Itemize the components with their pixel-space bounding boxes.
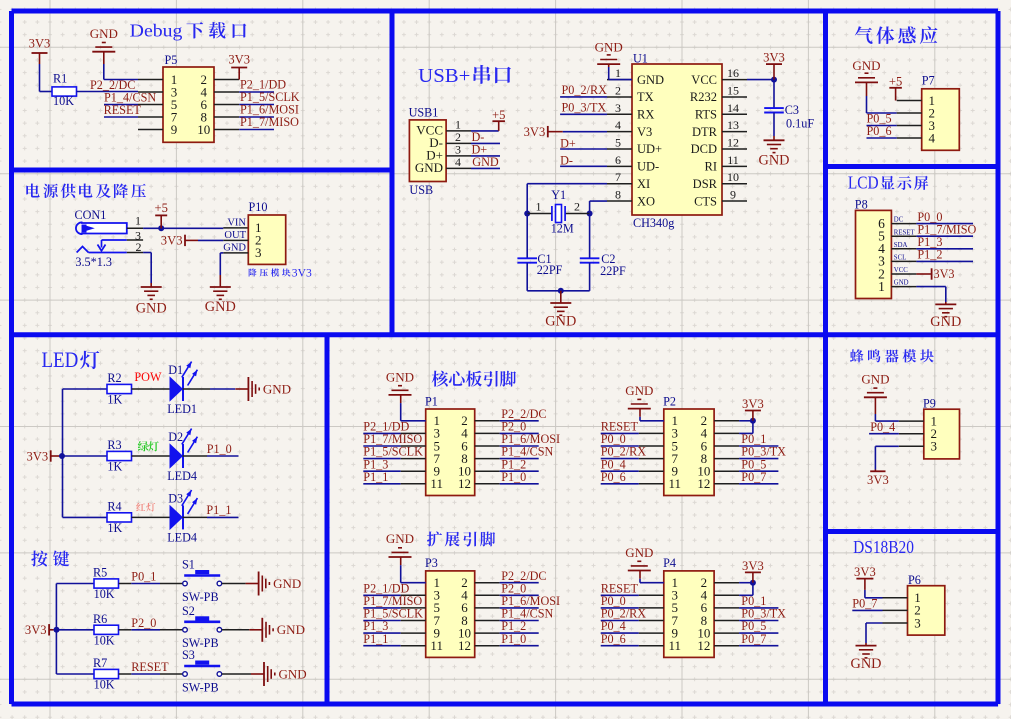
svg-text:R4: R4 [107, 500, 121, 514]
svg-text:RESET: RESET [131, 660, 169, 674]
svg-text:5: 5 [615, 136, 621, 150]
svg-text:2: 2 [574, 200, 580, 214]
svg-text:3V3: 3V3 [854, 565, 876, 579]
svg-text:+5: +5 [492, 108, 505, 122]
svg-text:P0_3/TX: P0_3/TX [562, 101, 607, 115]
svg-text:22PF: 22PF [537, 263, 563, 277]
svg-text:USB: USB [409, 183, 433, 197]
svg-text:XO: XO [637, 194, 655, 208]
svg-text:R5: R5 [93, 566, 107, 580]
svg-text:D-: D- [560, 154, 573, 168]
svg-text:7: 7 [615, 170, 621, 184]
svg-text:2: 2 [615, 83, 621, 97]
svg-text:P1_2: P1_2 [917, 248, 942, 262]
svg-text:P0_7: P0_7 [741, 470, 766, 484]
svg-text:RX: RX [637, 108, 654, 122]
svg-text:USB1: USB1 [409, 106, 439, 120]
svg-text:R1: R1 [53, 72, 67, 86]
svg-text:GND: GND [415, 160, 443, 175]
svg-text:P7: P7 [922, 74, 935, 88]
svg-text:+5: +5 [154, 201, 167, 215]
svg-text:GND: GND [136, 301, 167, 317]
svg-text:3V3: 3V3 [292, 266, 312, 279]
svg-text:GND: GND [759, 153, 790, 169]
svg-text:GND: GND [625, 545, 653, 560]
svg-text:R6: R6 [93, 612, 107, 626]
svg-text:16: 16 [727, 66, 739, 80]
svg-text:GND: GND [545, 313, 576, 329]
svg-text:S1: S1 [182, 558, 195, 572]
svg-text:12: 12 [458, 638, 471, 653]
svg-text:P9: P9 [923, 396, 936, 410]
svg-text:P1_0: P1_0 [207, 442, 232, 456]
svg-text:TX: TX [637, 90, 654, 104]
svg-text:UD+: UD+ [637, 142, 662, 156]
svg-text:3V3: 3V3 [763, 51, 785, 65]
svg-text:D1: D1 [168, 363, 183, 377]
svg-text:GND: GND [930, 314, 961, 330]
svg-text:DCD: DCD [691, 142, 717, 156]
svg-text:UD-: UD- [637, 160, 659, 174]
svg-text:P1: P1 [425, 394, 438, 408]
svg-text:P5: P5 [165, 53, 178, 67]
svg-text:RTS: RTS [695, 108, 717, 122]
svg-text:3V3: 3V3 [29, 37, 51, 51]
svg-text:10K: 10K [94, 587, 115, 601]
svg-text:SW-PB: SW-PB [182, 680, 219, 694]
svg-text:9: 9 [171, 122, 178, 137]
svg-text:R3: R3 [107, 438, 121, 452]
svg-text:10K: 10K [94, 633, 115, 647]
svg-text:GND: GND [861, 372, 889, 387]
svg-text:GND: GND [386, 531, 414, 546]
svg-text:GND: GND [205, 299, 236, 315]
svg-text:P1_1: P1_1 [206, 503, 231, 517]
svg-text:DSR: DSR [693, 177, 718, 191]
svg-text:RI: RI [705, 160, 718, 174]
svg-text:12M: 12M [551, 222, 574, 236]
svg-text:CTS: CTS [694, 194, 717, 208]
svg-text:11: 11 [727, 153, 739, 167]
svg-text:1K: 1K [107, 521, 122, 535]
svg-text:U1: U1 [633, 52, 648, 66]
svg-text:3: 3 [914, 615, 921, 630]
svg-text:GND: GND [386, 369, 414, 384]
svg-text:11: 11 [669, 476, 682, 491]
svg-text:P0_4: P0_4 [870, 420, 895, 434]
svg-text:SW-PB: SW-PB [182, 590, 219, 604]
svg-text:DC: DC [894, 217, 904, 224]
svg-text:R232: R232 [690, 90, 717, 104]
svg-text:LED4: LED4 [167, 469, 197, 483]
svg-text:LED1: LED1 [167, 402, 197, 416]
svg-text:0.1uF: 0.1uF [786, 117, 814, 131]
svg-text:P3: P3 [425, 556, 438, 570]
svg-text:GND: GND [277, 622, 305, 637]
svg-text:9: 9 [730, 188, 736, 202]
svg-text:GND: GND [851, 656, 882, 672]
svg-text:GND: GND [894, 280, 909, 287]
svg-text:3V3: 3V3 [26, 449, 48, 463]
svg-text:LED4: LED4 [167, 530, 197, 544]
svg-text:R2: R2 [107, 371, 121, 385]
svg-text:3: 3 [255, 245, 262, 260]
svg-text:14: 14 [727, 101, 739, 115]
svg-text:11: 11 [669, 638, 682, 653]
svg-text:S2: S2 [182, 604, 195, 618]
svg-text:GND: GND [279, 666, 307, 681]
svg-text:15: 15 [727, 83, 739, 97]
svg-text:1: 1 [536, 200, 542, 214]
svg-text:CH340g: CH340g [633, 216, 674, 230]
svg-text:V3: V3 [637, 125, 652, 139]
svg-text:P0_6: P0_6 [867, 124, 892, 138]
svg-text:GND: GND [263, 381, 291, 396]
svg-text:P0_7: P0_7 [852, 597, 877, 611]
svg-text:D3: D3 [168, 491, 183, 505]
svg-text:GND: GND [472, 155, 499, 169]
svg-text:1: 1 [135, 214, 141, 228]
svg-text:11: 11 [430, 476, 443, 491]
svg-text:4: 4 [928, 130, 935, 145]
svg-text:POW: POW [134, 370, 162, 384]
svg-text:10K: 10K [94, 678, 115, 692]
svg-text:6: 6 [615, 153, 621, 167]
svg-text:SCL: SCL [894, 255, 906, 262]
svg-text:Y1: Y1 [551, 188, 566, 202]
svg-text:LCD: LCD [848, 172, 879, 192]
svg-text:10: 10 [197, 122, 210, 137]
svg-text:P8: P8 [855, 198, 868, 212]
svg-text:+5: +5 [889, 75, 902, 89]
svg-text:3.5*1.3: 3.5*1.3 [75, 255, 112, 269]
svg-text:22PF: 22PF [600, 264, 626, 278]
svg-text:P10: P10 [249, 200, 268, 214]
svg-text:3V3: 3V3 [161, 234, 183, 248]
svg-text:GND: GND [595, 40, 623, 55]
svg-text:GND: GND [273, 576, 301, 591]
svg-text:3V3: 3V3 [742, 397, 764, 411]
svg-text:1K: 1K [107, 460, 122, 474]
svg-text:D2: D2 [168, 430, 183, 444]
svg-text:XI: XI [637, 177, 650, 191]
svg-text:R7: R7 [93, 656, 107, 670]
svg-text:3V3: 3V3 [228, 53, 250, 67]
svg-text:USB+: USB+ [418, 65, 470, 87]
svg-text:DS18B20: DS18B20 [853, 537, 914, 557]
svg-text:P0_6: P0_6 [601, 470, 626, 484]
svg-text:GND: GND [637, 73, 664, 87]
svg-text:Debug: Debug [130, 21, 183, 41]
svg-text:OUT: OUT [224, 230, 246, 241]
svg-text:VIN: VIN [227, 218, 246, 229]
svg-text:CON1: CON1 [75, 208, 107, 222]
svg-text:GND: GND [625, 383, 653, 398]
svg-text:13: 13 [727, 118, 739, 132]
svg-text:12: 12 [727, 136, 739, 150]
svg-text:P2_0: P2_0 [131, 616, 156, 630]
svg-text:3: 3 [931, 439, 938, 454]
svg-text:4: 4 [455, 155, 461, 169]
svg-text:P1_7/MISO: P1_7/MISO [240, 115, 299, 129]
svg-text:8: 8 [615, 188, 621, 202]
svg-text:D+: D+ [560, 136, 576, 150]
svg-text:RESET: RESET [104, 103, 142, 117]
svg-text:C3: C3 [785, 103, 799, 117]
svg-text:P1_1: P1_1 [363, 632, 388, 646]
svg-text:12: 12 [697, 476, 710, 491]
svg-text:DTR: DTR [692, 125, 718, 139]
svg-text:3V3: 3V3 [742, 559, 764, 573]
svg-text:1: 1 [615, 66, 621, 80]
svg-text:P1_0: P1_0 [501, 632, 526, 646]
svg-text:3V3: 3V3 [25, 623, 47, 637]
svg-text:4: 4 [615, 118, 621, 132]
svg-text:10: 10 [727, 170, 739, 184]
svg-text:LED: LED [42, 347, 79, 372]
svg-text:11: 11 [430, 638, 443, 653]
svg-text:3: 3 [615, 101, 621, 115]
svg-text:3V3: 3V3 [524, 125, 546, 139]
svg-text:P1_0: P1_0 [501, 470, 526, 484]
svg-text:VCC: VCC [894, 267, 908, 274]
svg-text:RESET: RESET [894, 229, 916, 236]
svg-text:GND: GND [223, 243, 246, 254]
svg-text:3V3: 3V3 [867, 473, 889, 487]
svg-text:1: 1 [878, 279, 885, 294]
svg-text:P0_7: P0_7 [741, 632, 766, 646]
svg-text:P6: P6 [908, 573, 921, 587]
svg-text:P4: P4 [663, 556, 676, 570]
svg-text:1K: 1K [107, 393, 122, 407]
svg-text:P2: P2 [663, 394, 676, 408]
svg-text:SDA: SDA [894, 242, 908, 249]
svg-text:S3: S3 [182, 648, 195, 662]
svg-text:GND: GND [852, 58, 880, 73]
svg-text:P0_2/RX: P0_2/RX [562, 83, 608, 97]
svg-text:GND: GND [90, 26, 118, 41]
svg-text:P1_1: P1_1 [363, 470, 388, 484]
svg-text:12: 12 [458, 476, 471, 491]
svg-text:12: 12 [697, 638, 710, 653]
svg-text:10K: 10K [53, 94, 74, 108]
svg-text:P0_1: P0_1 [131, 570, 156, 584]
svg-text:VCC: VCC [691, 73, 717, 87]
svg-text:P0_6: P0_6 [601, 632, 626, 646]
svg-text:3V3: 3V3 [934, 267, 955, 281]
